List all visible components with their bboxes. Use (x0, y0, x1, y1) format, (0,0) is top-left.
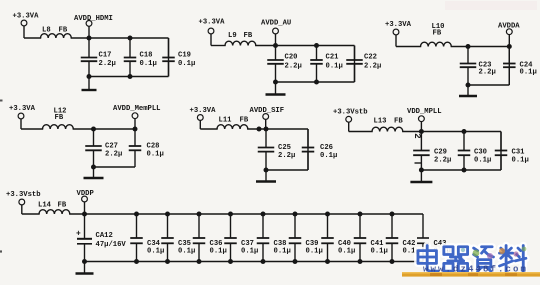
svg-text:C29: C29 (434, 149, 447, 157)
svg-text:2: 2 (412, 133, 422, 138)
svg-text:2.2μ: 2.2μ (105, 151, 122, 159)
svg-text:C18: C18 (140, 52, 153, 60)
svg-text:+3.3VA: +3.3VA (9, 105, 36, 113)
svg-text:C21: C21 (326, 54, 340, 62)
svg-text:0.1μ: 0.1μ (178, 248, 195, 256)
svg-text:C27: C27 (105, 143, 118, 151)
svg-text:C31: C31 (512, 149, 526, 157)
svg-text:2.2μ: 2.2μ (285, 63, 302, 71)
svg-text:C22: C22 (364, 54, 377, 62)
svg-text:+3.3VA: +3.3VA (13, 13, 40, 21)
svg-text:0.1μ: 0.1μ (320, 152, 337, 160)
svg-text:AVDD_HDMI: AVDD_HDMI (74, 15, 113, 23)
svg-text:+3.3Vstb: +3.3Vstb (6, 191, 41, 199)
svg-text:47μ/16V: 47μ/16V (96, 241, 127, 249)
svg-text:L8: L8 (42, 27, 51, 35)
svg-text:0.1μ: 0.1μ (371, 248, 388, 256)
svg-text:C28: C28 (147, 143, 160, 151)
svg-text:0.1μ: 0.1μ (306, 248, 323, 256)
svg-text:0.1μ: 0.1μ (520, 69, 537, 77)
svg-text:FB: FB (433, 30, 442, 38)
svg-text:L11: L11 (219, 117, 233, 125)
svg-text:L13: L13 (374, 118, 387, 126)
svg-text:+3.3Vstb: +3.3Vstb (333, 109, 368, 117)
svg-text:2.2μ: 2.2μ (99, 60, 116, 68)
svg-text:2.2μ: 2.2μ (434, 157, 451, 165)
svg-text:VDD_MPLL: VDD_MPLL (407, 108, 442, 116)
svg-text:0.1μ: 0.1μ (338, 248, 355, 256)
svg-text:+: + (76, 230, 81, 239)
svg-text:0.1μ: 0.1μ (474, 157, 491, 165)
svg-text:0.1μ: 0.1μ (512, 157, 529, 165)
svg-text:C30: C30 (474, 149, 487, 157)
svg-text:FB: FB (244, 32, 253, 40)
svg-text:+3.3VA: +3.3VA (199, 19, 226, 27)
svg-text:0.1μ: 0.1μ (178, 60, 195, 68)
svg-text:C20: C20 (285, 54, 298, 62)
svg-text:2.2μ: 2.2μ (364, 63, 381, 71)
svg-text:AVDD_AU: AVDD_AU (261, 20, 291, 28)
svg-text:FB: FB (59, 27, 68, 35)
svg-text:2.2μ: 2.2μ (278, 152, 295, 160)
svg-text:CA12: CA12 (96, 232, 113, 240)
svg-text:C17: C17 (99, 52, 112, 60)
svg-text:L14: L14 (38, 202, 52, 210)
svg-text:0.1μ: 0.1μ (326, 63, 343, 71)
svg-text:0.1μ: 0.1μ (241, 248, 258, 256)
svg-text:FB: FB (55, 114, 64, 122)
svg-text:2.2μ: 2.2μ (479, 69, 496, 77)
svg-text:0.1μ: 0.1μ (140, 60, 157, 68)
svg-text:0.1μ: 0.1μ (274, 248, 291, 256)
svg-text:FB: FB (240, 117, 249, 125)
svg-text:C19: C19 (178, 52, 191, 60)
svg-text:AVDD_MemPLL: AVDD_MemPLL (113, 105, 160, 113)
svg-text:L9: L9 (228, 32, 237, 40)
svg-text:0.1μ: 0.1μ (147, 248, 164, 256)
svg-text:FB: FB (58, 202, 67, 210)
svg-text:+3.3VA: +3.3VA (190, 107, 217, 115)
svg-text:C25: C25 (278, 144, 291, 152)
svg-text:C26: C26 (320, 144, 333, 152)
svg-text:0.1μ: 0.1μ (210, 248, 227, 256)
svg-text:FB: FB (394, 118, 403, 126)
svg-text:0.1μ: 0.1μ (147, 151, 164, 159)
svg-text:+3.3VA: +3.3VA (385, 21, 412, 29)
